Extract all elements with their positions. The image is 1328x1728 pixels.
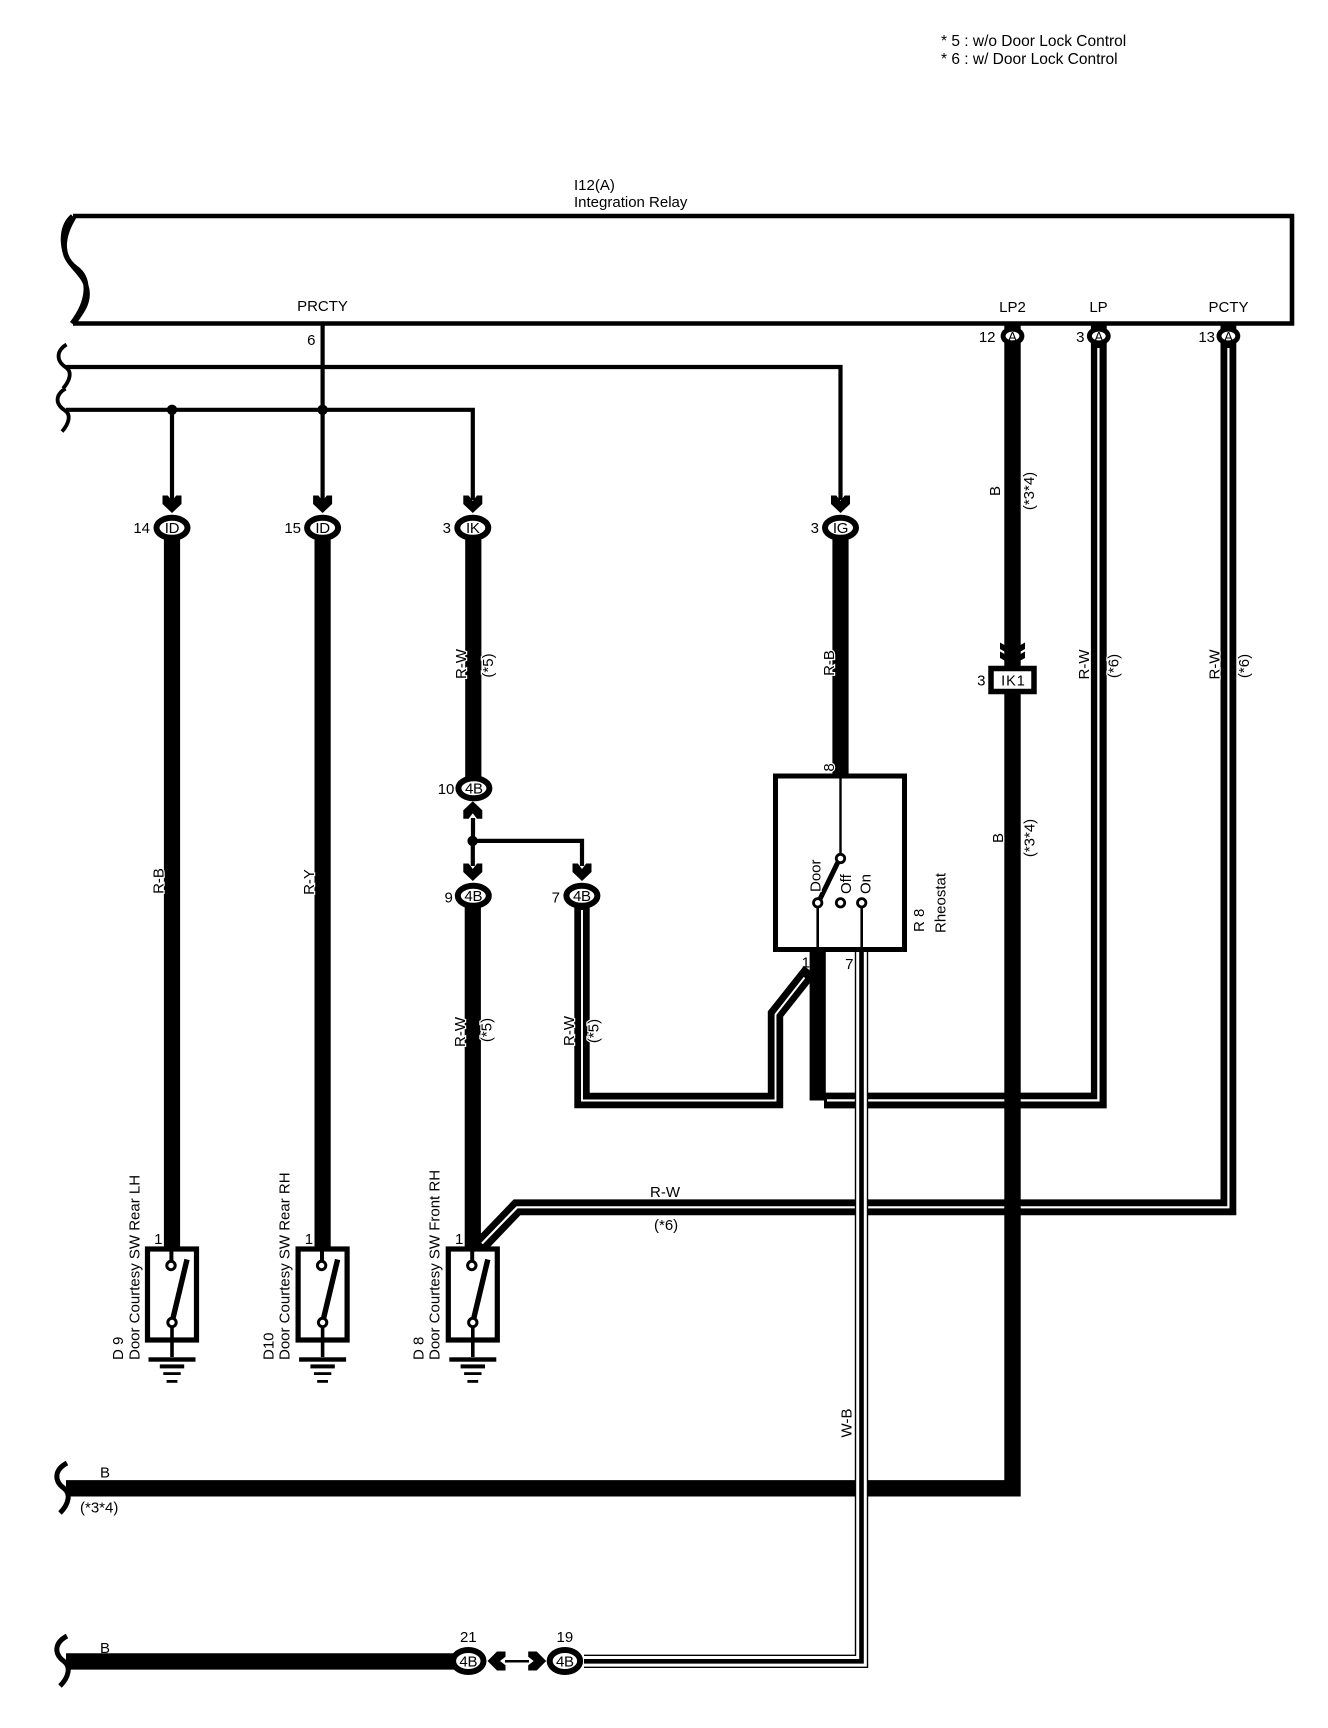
- svg-text:W-B: W-B: [839, 1409, 856, 1438]
- svg-text:6: 6: [307, 332, 315, 349]
- svg-text:LP2: LP2: [999, 299, 1026, 316]
- svg-text:7: 7: [845, 956, 853, 973]
- svg-text:9: 9: [445, 890, 453, 907]
- svg-text:3: 3: [811, 520, 819, 537]
- svg-text:(*5): (*5): [480, 653, 497, 677]
- svg-text:12: 12: [979, 329, 996, 346]
- svg-text:D 9: D 9: [110, 1337, 127, 1360]
- svg-text:8: 8: [821, 763, 838, 771]
- svg-text:(*6): (*6): [654, 1217, 678, 1234]
- svg-text:LP: LP: [1089, 299, 1107, 316]
- svg-text:B: B: [100, 1465, 110, 1482]
- svg-text:4B: 4B: [464, 888, 482, 905]
- svg-text:Rheostat: Rheostat: [933, 872, 950, 933]
- svg-text:3: 3: [443, 520, 451, 537]
- svg-text:4B: 4B: [465, 781, 483, 798]
- svg-text:4B: 4B: [556, 1654, 574, 1671]
- svg-text:1: 1: [802, 955, 810, 972]
- svg-text:ID: ID: [165, 520, 180, 537]
- svg-text:A: A: [1094, 329, 1103, 344]
- svg-text:3: 3: [1076, 329, 1084, 346]
- svg-text:IK1: IK1: [1001, 674, 1026, 690]
- svg-text:Integration Relay: Integration Relay: [574, 194, 688, 211]
- svg-text:R 8: R 8: [911, 909, 928, 932]
- svg-text:(*3*4): (*3*4): [1022, 819, 1039, 857]
- svg-text:Door Courtesy SW Front RH: Door Courtesy SW Front RH: [426, 1170, 443, 1360]
- svg-text:R-B: R-B: [151, 868, 168, 894]
- svg-text:(*5): (*5): [586, 1019, 603, 1043]
- svg-text:R-W: R-W: [650, 1184, 681, 1201]
- svg-text:(*6): (*6): [1106, 654, 1123, 678]
- svg-text:ID: ID: [315, 520, 330, 537]
- svg-text:B: B: [990, 833, 1007, 843]
- svg-text:D 8: D 8: [410, 1337, 427, 1360]
- svg-text:1: 1: [154, 1231, 162, 1248]
- svg-text:R-B: R-B: [821, 650, 838, 676]
- svg-text:4B: 4B: [573, 888, 591, 905]
- svg-text:I12(A): I12(A): [574, 177, 615, 194]
- svg-text:19: 19: [557, 1629, 574, 1646]
- svg-text:21: 21: [460, 1629, 477, 1646]
- svg-text:PCTY: PCTY: [1208, 299, 1248, 316]
- svg-text:B: B: [100, 1640, 110, 1657]
- svg-text:14: 14: [133, 520, 150, 537]
- svg-text:* 5 : w/o Door Lock Control: * 5 : w/o Door Lock Control: [941, 33, 1126, 50]
- svg-text:(*5): (*5): [479, 1018, 496, 1042]
- svg-text:R-W: R-W: [1207, 649, 1224, 680]
- svg-text:R-W: R-W: [453, 648, 470, 679]
- svg-text:1: 1: [455, 1231, 463, 1248]
- svg-text:13: 13: [1198, 329, 1215, 346]
- svg-text:R-Y: R-Y: [301, 869, 318, 895]
- svg-text:1: 1: [305, 1231, 313, 1248]
- svg-text:(*3*4): (*3*4): [1021, 472, 1038, 510]
- svg-text:IG: IG: [833, 520, 848, 537]
- svg-text:* 6 : w/ Door Lock Control: * 6 : w/ Door Lock Control: [941, 51, 1118, 68]
- svg-text:Door: Door: [808, 859, 825, 892]
- svg-text:4B: 4B: [459, 1654, 477, 1671]
- svg-text:A: A: [1008, 329, 1017, 344]
- svg-text:D10: D10: [260, 1332, 277, 1360]
- svg-text:PRCTY: PRCTY: [297, 298, 348, 315]
- svg-text:IK: IK: [466, 520, 480, 537]
- svg-text:3: 3: [977, 673, 985, 690]
- svg-text:R-W: R-W: [1076, 649, 1093, 680]
- svg-text:7: 7: [552, 890, 560, 907]
- svg-text:B: B: [987, 486, 1004, 496]
- svg-text:Door Courtesy SW Rear LH: Door Courtesy SW Rear LH: [126, 1175, 143, 1360]
- svg-text:R-W: R-W: [452, 1016, 469, 1047]
- svg-text:15: 15: [284, 520, 301, 537]
- svg-text:(*3*4): (*3*4): [80, 1500, 118, 1517]
- svg-text:R-W: R-W: [561, 1015, 578, 1046]
- svg-text:10: 10: [438, 781, 455, 798]
- svg-text:Off: Off: [838, 873, 855, 894]
- svg-text:Door Courtesy SW Rear RH: Door Courtesy SW Rear RH: [276, 1172, 293, 1360]
- svg-text:(*6): (*6): [1236, 654, 1253, 678]
- svg-text:On: On: [858, 874, 875, 894]
- svg-text:A: A: [1224, 329, 1233, 344]
